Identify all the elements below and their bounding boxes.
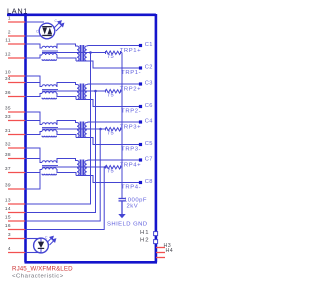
- wire pin2 to LED1: [25, 35, 42, 37]
- pin 32 stub: [8, 147, 25, 149]
- svg-text:1000pF: 1000pF: [124, 197, 147, 203]
- svg-text:TRP4-: TRP4-: [121, 185, 141, 191]
- pin 12 stub: [8, 57, 25, 59]
- pin 14 stub: [8, 212, 25, 214]
- svg-text:TRP1-: TRP1-: [121, 70, 141, 76]
- pin 34 stub: [8, 82, 25, 84]
- svg-text:35: 35: [5, 106, 11, 112]
- center tap bus wire channel 3 to pin: [25, 129, 100, 221]
- wire pin4 to LED2: [25, 252, 41, 254]
- svg-text:C4: C4: [145, 119, 153, 125]
- svg-text:37: 37: [5, 166, 11, 172]
- channel 3 transformer T3: [77, 122, 87, 138]
- net TRP4+ wire: [87, 159, 139, 162]
- svg-text:C3: C3: [145, 81, 153, 87]
- junction node channel 2: [94, 90, 97, 93]
- pin 11 stub: [8, 43, 25, 45]
- svg-text:C5: C5: [145, 141, 153, 147]
- pin H2 pad: [154, 240, 158, 244]
- svg-text:H1: H1: [140, 230, 150, 236]
- net TRP3+ wire: [87, 121, 139, 124]
- svg-text:3: 3: [8, 232, 11, 238]
- pin 15 stub: [8, 220, 25, 222]
- pin 2 stub: [8, 35, 25, 37]
- svg-text:TRP3-: TRP3-: [121, 147, 141, 153]
- pin 38 stub: [8, 158, 25, 160]
- port C8: [139, 181, 142, 184]
- svg-text:36: 36: [5, 90, 11, 96]
- center tap bus wire channel 2 to pin: [25, 91, 96, 213]
- svg-text:32: 32: [5, 142, 11, 148]
- center tap line channel 2: [42, 90, 106, 92]
- pin 3 stub: [8, 238, 25, 240]
- channel 1 transformer T1: [77, 45, 87, 61]
- pin 36 stub: [8, 96, 25, 98]
- LED2 emission arrows: [47, 236, 56, 245]
- svg-text:75: 75: [107, 93, 114, 99]
- net TRP2- wire: [76, 100, 139, 107]
- pin 31 stub: [8, 134, 25, 136]
- svg-text:16: 16: [5, 223, 11, 229]
- port C7: [139, 158, 142, 161]
- port C6: [139, 105, 142, 108]
- net TRP4- wire: [76, 176, 139, 183]
- shield ground symbol: [118, 214, 125, 218]
- svg-text:1: 1: [8, 16, 11, 22]
- port C2: [139, 66, 142, 69]
- parallel pin wire: [25, 148, 40, 163]
- pin 4 stub: [8, 252, 25, 254]
- center tap bus wire channel 4 to pin: [25, 167, 104, 230]
- channel 2 common-mode choke L2: [25, 83, 77, 100]
- channel 4 common-mode choke L4: [25, 159, 77, 176]
- channel 1 common-mode choke L1: [25, 44, 77, 61]
- svg-text:TRP3+: TRP3+: [120, 125, 142, 131]
- wire pin3 to LED2: [25, 238, 41, 240]
- resistor R1 75: [106, 51, 123, 55]
- svg-text:11: 11: [5, 38, 11, 44]
- resistor R2 75: [106, 89, 123, 93]
- pin 13 stub: [8, 203, 25, 205]
- pin H1 pad: [154, 232, 158, 236]
- svg-text:C7: C7: [145, 157, 153, 163]
- svg-text:RJ45_W/XFMR&LED: RJ45_W/XFMR&LED: [12, 265, 73, 272]
- port C1: [139, 44, 142, 47]
- junction node channel 1: [89, 51, 92, 54]
- termination bus wire: [121, 53, 123, 199]
- svg-text:31: 31: [5, 128, 11, 134]
- parallel pin wire: [25, 112, 40, 125]
- svg-text:14: 14: [5, 206, 11, 212]
- svg-text:<Characteristic>: <Characteristic>: [12, 273, 64, 279]
- svg-text:TRP2+: TRP2+: [120, 87, 142, 93]
- port C3: [139, 82, 142, 85]
- svg-text:SHIELD GND: SHIELD GND: [107, 222, 148, 228]
- pin H4 stub: [156, 252, 165, 254]
- pin H3 stub: [156, 247, 165, 249]
- svg-text:H2: H2: [140, 238, 150, 244]
- svg-text:15: 15: [5, 215, 11, 221]
- LED D1 bi-color: [39, 23, 55, 39]
- net TRP2+ wire: [87, 83, 139, 86]
- channel 4 transformer T4: [77, 160, 87, 176]
- svg-text:LAN1: LAN1: [7, 6, 28, 15]
- component body outline LAN1: [7, 14, 157, 262]
- svg-text:38: 38: [5, 152, 11, 158]
- port C5: [139, 143, 142, 146]
- resistor R4 75: [106, 165, 123, 169]
- center tap line channel 3: [42, 128, 106, 130]
- parallel pin wire: [25, 170, 40, 190]
- svg-text:39: 39: [5, 183, 11, 189]
- pin 39 stub: [8, 188, 25, 190]
- svg-text:C1: C1: [145, 42, 153, 48]
- center tap line channel 4: [42, 166, 106, 168]
- svg-text:33: 33: [5, 114, 11, 120]
- svg-text:10: 10: [5, 70, 11, 76]
- svg-text:75: 75: [107, 54, 114, 60]
- svg-text:TRP1+: TRP1+: [120, 48, 142, 54]
- svg-text:4: 4: [8, 246, 11, 252]
- center tap bus wire channel 1 to pin: [25, 53, 91, 205]
- svg-text:12: 12: [5, 52, 11, 58]
- channel 3 common-mode choke L3: [25, 121, 77, 138]
- svg-text:75: 75: [107, 131, 114, 137]
- pin H5 stub: [156, 257, 165, 259]
- svg-text:TRP2-: TRP2-: [121, 109, 141, 115]
- channel 2 transformer T2: [77, 84, 87, 100]
- junction node channel 4: [104, 166, 107, 169]
- svg-text:2: 2: [8, 30, 11, 36]
- center tap line channel 1: [42, 52, 106, 54]
- svg-text:75: 75: [107, 169, 114, 175]
- svg-text:C8: C8: [145, 179, 153, 185]
- wire pin1 to LED1: [25, 21, 44, 23]
- port C4: [139, 120, 142, 123]
- pin 16 stub: [8, 229, 25, 231]
- junction node channel 3: [99, 128, 102, 131]
- pin 35 stub: [8, 111, 25, 113]
- svg-text:TRP4+: TRP4+: [120, 163, 142, 169]
- parallel pin wire: [25, 76, 40, 87]
- pin 1 stub: [8, 21, 25, 23]
- capacitor C9 1000pF 2kV: [119, 199, 126, 215]
- resistor R3 75: [106, 127, 123, 131]
- pin 33 stub: [8, 120, 25, 122]
- pin 10 stub: [8, 75, 25, 77]
- svg-text:H4: H4: [166, 248, 174, 254]
- svg-text:13: 13: [5, 198, 11, 204]
- LED1 emission arrows: [54, 21, 64, 31]
- net TRP3- wire: [76, 138, 139, 145]
- svg-text:C6: C6: [145, 103, 153, 109]
- svg-text:2kV: 2kV: [127, 204, 139, 210]
- pin 37 stub: [8, 172, 25, 174]
- LED D2: [34, 238, 49, 253]
- net TRP1+ wire: [87, 45, 139, 48]
- svg-text:C2: C2: [145, 65, 153, 71]
- net TRP1- wire: [76, 61, 139, 68]
- svg-text:34: 34: [5, 76, 11, 82]
